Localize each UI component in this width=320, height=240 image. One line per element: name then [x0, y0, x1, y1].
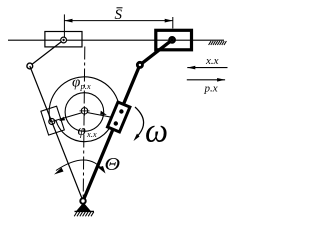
pivot support triangle [76, 203, 91, 212]
right slider pin [169, 37, 174, 42]
wall hatching right end [209, 41, 227, 45]
svg-text:S: S [115, 7, 123, 23]
pin left slider [61, 37, 67, 43]
thick slider block on link [107, 102, 129, 132]
dimension S extension line left [63, 14, 65, 37]
svg-text:х.х: х.х [205, 55, 219, 67]
left slider rect [45, 32, 82, 47]
pins in thick block [119, 109, 123, 113]
thick crank link [83, 40, 172, 201]
dimension arrow right [165, 19, 173, 23]
svg-text:φ: φ [78, 123, 86, 139]
pivot ground hatching [74, 212, 94, 217]
svg-text:х.х: х.х [86, 129, 97, 139]
svg-text:р.х: р.х [204, 82, 218, 94]
small circle [65, 93, 104, 132]
big arc phi px [49, 77, 120, 122]
elbow pin [137, 62, 142, 67]
center crosshair ticks [80, 110, 90, 112]
arrow x.x [187, 67, 227, 69]
rocker link line B to pivot [30, 66, 83, 201]
pin B [27, 63, 33, 69]
swing arc arrow right [98, 166, 106, 174]
bottom arc phi xx [56, 118, 114, 142]
left radius ray [52, 112, 85, 122]
svg-text:φ: φ [72, 75, 80, 91]
pivot base line [75, 210, 95, 212]
pin of tilted block [49, 119, 55, 125]
arrowhead small circle right [100, 111, 107, 115]
omega rotation arrow [135, 107, 144, 136]
arrowhead small circle left [59, 117, 65, 121]
arrow p.x [187, 79, 225, 81]
dimension arrow left [64, 19, 72, 23]
pivot pin [80, 198, 85, 203]
swing arc arrow left [54, 168, 64, 175]
right radius ray [84, 112, 115, 118]
svg-text:р.х: р.х [80, 81, 91, 91]
swing arc [56, 160, 104, 172]
svg-text:ω: ω [145, 113, 168, 150]
tilted slider block [41, 106, 64, 135]
tiny center circle [81, 108, 87, 114]
vertical dash-dot centerline [83, 47, 85, 201]
right slider rect [156, 30, 192, 50]
dimension S extension line right [172, 17, 174, 29]
dimension S line [64, 20, 172, 22]
wire guide line horizontal [8, 39, 224, 41]
link left slider to pin B [30, 40, 64, 66]
svg-text:Θ: Θ [105, 154, 121, 174]
